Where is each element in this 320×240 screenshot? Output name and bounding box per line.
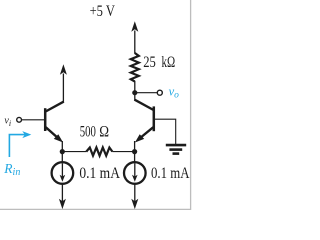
svg-text:kΩ: kΩ xyxy=(162,54,176,71)
node: left emitter node dot xyxy=(60,149,65,154)
svg-text:25: 25 xyxy=(143,54,156,71)
svg-text:0.1 mA: 0.1 mA xyxy=(151,165,190,182)
Rin direction arrow (cyan) xyxy=(9,131,31,157)
transistor Q2 base bar xyxy=(153,106,156,131)
transistor Q1 emitter lead with arrow xyxy=(46,127,64,143)
arrowhead: I2 to negative supply xyxy=(131,199,138,209)
wire: left node to current source I1 xyxy=(61,152,63,162)
svg-text:vo: vo xyxy=(169,84,180,100)
svg-text:Rin: Rin xyxy=(3,161,20,178)
svg-text:vi: vi xyxy=(4,116,11,128)
wire: node to vo terminal xyxy=(135,92,157,94)
transistor Q1 collector arrow (to +5V) xyxy=(60,64,67,75)
resistor R1 25 kOhm xyxy=(131,53,139,82)
arrowhead: I1 to negative supply xyxy=(59,199,66,209)
node: right emitter node dot xyxy=(132,149,137,154)
terminal vo (open circle) xyxy=(157,90,162,95)
wire: I2 to bottom arrow xyxy=(134,184,136,203)
wire: right node to resistor R2 xyxy=(112,151,134,153)
transistor Q2 collector wire xyxy=(134,93,136,100)
figure border (decorative) xyxy=(0,0,191,209)
arrowhead to +5V xyxy=(131,21,138,32)
wire: resistor R2 to left emitter node xyxy=(62,151,86,153)
svg-text:+5 V: +5 V xyxy=(90,3,115,20)
transistor Q1 collector lead xyxy=(45,102,64,112)
transistor Q1 base bar xyxy=(44,108,47,131)
wire: I1 to bottom arrow xyxy=(61,184,63,203)
svg-text:0.1 mA: 0.1 mA xyxy=(79,165,120,182)
wire: resistor bottom to output node xyxy=(134,81,136,93)
ground xyxy=(166,145,186,154)
resistor R2 500 Ohm xyxy=(86,148,112,156)
wire: Q2 base to ground xyxy=(155,119,176,144)
wire: vi terminal to Q1 base xyxy=(22,119,44,121)
wire: right node to current source I2 xyxy=(134,152,136,162)
current source I2 xyxy=(124,162,146,184)
transistor Q2 emitter lead with arrow xyxy=(135,127,154,143)
svg-text:500: 500 xyxy=(80,124,96,141)
svg-text:Ω: Ω xyxy=(99,124,109,141)
transistor Q1 collector wire xyxy=(62,74,64,103)
terminal vi (open circle) xyxy=(17,117,22,122)
transistor Q2 collector lead xyxy=(134,100,153,110)
wire: Q1 emitter to left node xyxy=(61,141,63,152)
wire: Q2 emitter to emitter node xyxy=(134,141,136,152)
current source I1 xyxy=(52,162,74,184)
node: output node dot xyxy=(132,90,137,95)
wire: supply arrow to resistor top xyxy=(134,31,136,54)
